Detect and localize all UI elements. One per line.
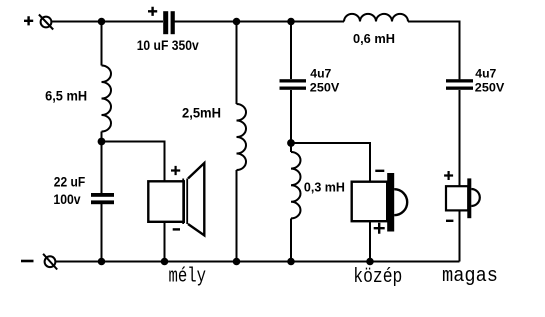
svg-text:100v: 100v [53,192,81,207]
svg-text:közép: közép [353,266,402,289]
svg-text:6,5 mH: 6,5 mH [45,89,87,104]
svg-text:magas: magas [442,265,498,288]
svg-text:2,5mH: 2,5mH [182,105,221,120]
svg-text:0,3 mH: 0,3 mH [304,180,345,194]
svg-text:4u7: 4u7 [310,66,331,80]
svg-text:10 uF 350v: 10 uF 350v [137,38,199,53]
svg-text:250V: 250V [310,81,340,95]
svg-text:4u7: 4u7 [475,66,496,80]
svg-text:250V: 250V [475,81,505,95]
svg-text:22 uF: 22 uF [54,175,85,190]
svg-text:mély: mély [169,265,207,288]
svg-text:0,6 mH: 0,6 mH [353,31,395,46]
